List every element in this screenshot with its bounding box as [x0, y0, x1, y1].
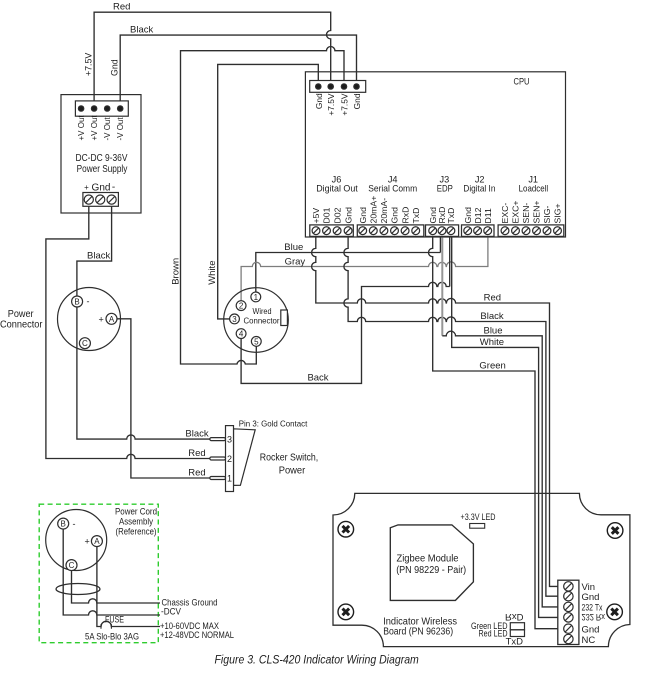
svg-text:Digital Out: Digital Out — [316, 183, 358, 193]
svg-text:1: 1 — [227, 473, 232, 483]
wire psu black to power connector B — [77, 204, 112, 302]
svg-text:SIG+: SIG+ — [553, 203, 563, 223]
svg-text:Zigbee Module: Zigbee Module — [397, 554, 460, 565]
CPU box — [305, 72, 565, 237]
wire green (J3 Gnd to board Gnd) — [429, 238, 558, 629]
CPU top 4-pin connector — [310, 81, 366, 93]
wire rxd dark stub — [439, 238, 441, 253]
svg-text:2: 2 — [239, 302, 244, 311]
svg-text:Connector: Connector — [0, 320, 43, 331]
green LED rect — [510, 623, 524, 630]
svg-text:2: 2 — [227, 454, 232, 464]
wire back (wired connector pin4 to J3 TxD) — [241, 282, 450, 383]
J6 terminal strip — [310, 225, 354, 237]
svg-text:TxD: TxD — [446, 208, 456, 224]
svg-text:RxD: RxD — [400, 207, 410, 224]
power supply screw terminal — [83, 193, 119, 207]
rocker switch — [210, 426, 255, 492]
J2 terminal strip — [462, 225, 495, 237]
svg-text:+: + — [84, 183, 89, 192]
svg-text:Red: Red — [484, 293, 501, 304]
svg-text:D01: D01 — [322, 207, 332, 223]
power cord wire C to chassis ground — [72, 571, 161, 603]
svg-text:NC: NC — [582, 635, 596, 646]
svg-text:A: A — [109, 315, 115, 324]
wireless board outline — [333, 493, 630, 646]
svg-text:+7.5V: +7.5V — [84, 53, 94, 76]
wire red (J6 +5V to board Vin) — [312, 238, 558, 587]
svg-text:Gnd: Gnd — [343, 207, 353, 224]
svg-text:5: 5 — [254, 337, 259, 346]
svg-text:Red: Red — [188, 468, 205, 479]
wire power connector A to rocker pin1 — [117, 319, 210, 478]
svg-text:(Reference): (Reference) — [116, 527, 157, 537]
svg-text:Loadcell: Loadcell — [519, 183, 549, 193]
svg-text:C: C — [69, 561, 75, 570]
svg-text:+: + — [85, 537, 90, 547]
board corner screw TR — [607, 523, 623, 539]
wire white2 (J3 TxD to board 232Rx) — [452, 238, 558, 618]
svg-text:+7.5V: +7.5V — [326, 93, 336, 116]
wire white (CPU Gnd to wired connector pin3) — [218, 64, 319, 319]
svg-text:Power: Power — [279, 466, 306, 477]
svg-text:+5V: +5V — [311, 208, 321, 224]
svg-text:+V Out: +V Out — [77, 115, 86, 141]
power supply box — [61, 95, 141, 213]
svg-text:Gnd: Gnd — [314, 93, 324, 109]
svg-text:Assembly: Assembly — [119, 517, 153, 527]
svg-text:B: B — [74, 298, 79, 307]
J4 terminal strip — [357, 225, 424, 237]
svg-text:+3.3V LED: +3.3V LED — [461, 512, 496, 522]
svg-text:Power: Power — [8, 309, 34, 320]
svg-text:+: + — [99, 314, 104, 324]
wire gray vertical from J3 RxD — [441, 238, 443, 336]
svg-text:4: 4 — [239, 330, 244, 339]
svg-text:Digital In: Digital In — [463, 183, 495, 193]
svg-text:20mA+: 20mA+ — [369, 196, 379, 224]
svg-text:D02: D02 — [332, 207, 342, 223]
wire txd vertical (to Back) — [449, 238, 451, 287]
svg-text:(PN 98229 - Pair): (PN 98229 - Pair) — [396, 565, 466, 576]
svg-text:Power Supply: Power Supply — [77, 164, 128, 175]
+3.3V LED rect — [470, 524, 485, 529]
svg-text:20mA-: 20mA- — [379, 198, 389, 224]
svg-text:Pin 3: Gold Contact: Pin 3: Gold Contact — [239, 419, 308, 429]
svg-text:TxD: TxD — [411, 208, 421, 224]
svg-text:SEN-: SEN- — [521, 203, 531, 224]
red LED rect — [510, 630, 524, 637]
svg-text:Rocker Switch,: Rocker Switch, — [260, 453, 319, 464]
power cord wire A through fuse — [97, 547, 160, 627]
svg-text:EXC+: EXC+ — [511, 201, 521, 224]
svg-text:FUSE: FUSE — [105, 614, 124, 624]
svg-text:Figure 3. CLS-420 Indicator Wi: Figure 3. CLS-420 Indicator Wiring Diagr… — [215, 653, 419, 667]
svg-text:3: 3 — [232, 315, 237, 324]
svg-text:TxD: TxD — [506, 636, 524, 647]
svg-text:+7.5V: +7.5V — [340, 93, 350, 116]
svg-text:C: C — [82, 339, 88, 348]
svg-text:Brown: Brown — [171, 258, 182, 285]
svg-text:Black: Black — [185, 429, 208, 440]
power connector circle — [58, 288, 121, 351]
svg-text:Gnd: Gnd — [582, 592, 600, 603]
svg-text:Connector: Connector — [244, 316, 280, 326]
svg-text:A: A — [94, 537, 100, 546]
svg-text:Gnd: Gnd — [358, 207, 368, 224]
svg-text:-: - — [87, 297, 90, 307]
svg-text:Red: Red — [113, 2, 130, 13]
wire psu + screw to rocker pin2 — [46, 204, 210, 459]
svg-text:D11: D11 — [483, 208, 493, 223]
board corner screw BL — [338, 604, 354, 620]
wire blue2 (J3 RxD to board 232Tx) — [442, 331, 558, 607]
svg-text:Black: Black — [480, 311, 503, 322]
svg-text:D12: D12 — [473, 207, 483, 223]
power cord pins — [58, 518, 103, 571]
svg-text:CPU: CPU — [514, 77, 530, 88]
svg-text:Red LED: Red LED — [479, 628, 508, 638]
svg-text:SIG-: SIG- — [542, 206, 552, 224]
svg-text:-: - — [73, 519, 76, 529]
svg-text:+V Out: +V Out — [90, 115, 99, 141]
svg-text:Blue: Blue — [483, 325, 502, 336]
power cord assembly dashed box — [39, 504, 158, 643]
board terminal block — [558, 580, 579, 644]
svg-text:Black: Black — [130, 25, 153, 36]
J1 terminal strip — [498, 225, 564, 237]
svg-text:White: White — [480, 337, 504, 348]
svg-text:-: - — [112, 182, 115, 193]
zigbee module — [390, 525, 473, 601]
wired connector circle — [224, 288, 289, 353]
svg-text:1: 1 — [254, 293, 259, 302]
wire gray (wired connector pin2 to J2 D11) — [241, 238, 488, 301]
svg-text:Green: Green — [479, 361, 505, 372]
svg-text:-V Out: -V Out — [103, 117, 112, 141]
svg-text:5A Slo-Blo 3AG: 5A Slo-Blo 3AG — [85, 632, 139, 643]
wire black2 (J6 Gnd to board Gnd) — [344, 238, 558, 597]
wire power connector B to rocker pin3 — [77, 302, 210, 440]
svg-text:SEN+: SEN+ — [532, 201, 542, 224]
wire brown (CPU +7.5V to wired connector pin5) — [181, 47, 345, 365]
svg-text:RxD: RxD — [505, 611, 524, 622]
svg-text:EXC-: EXC- — [500, 203, 510, 224]
wire blue (wired connector pin1 to J3 RxD) — [256, 253, 441, 293]
fuse end ticks — [101, 624, 111, 629]
svg-text:-V Out: -V Out — [116, 117, 125, 141]
svg-text:3: 3 — [227, 434, 232, 444]
svg-text:White: White — [207, 261, 218, 285]
svg-text:DC-DC 9-36V: DC-DC 9-36V — [76, 153, 128, 164]
svg-text:+12-48VDC NORMAL: +12-48VDC NORMAL — [160, 630, 234, 641]
wire red top (PSU +V to CPU +7.5V) — [94, 12, 331, 104]
svg-text:Back: Back — [307, 373, 328, 384]
svg-text:Red: Red — [188, 448, 205, 459]
svg-text:Gnd: Gnd — [463, 207, 473, 224]
svg-text:Serial Comm: Serial Comm — [368, 183, 417, 193]
svg-text:Blue: Blue — [284, 242, 303, 253]
cable bundle ellipse — [56, 584, 100, 595]
svg-text:Gnd: Gnd — [390, 207, 400, 224]
J3 terminal strip — [426, 225, 459, 237]
power supply 4-pin connector — [75, 101, 128, 116]
svg-text:Board (PN 96236): Board (PN 96236) — [383, 627, 453, 638]
power cord circle — [46, 510, 107, 571]
wire black top (PSU -V to CPU Gnd) — [120, 35, 356, 104]
svg-text:232 Rx: 232 Rx — [582, 611, 606, 622]
svg-text:Gnd: Gnd — [352, 93, 362, 109]
svg-text:Gray: Gray — [285, 257, 306, 268]
svg-text:EDP: EDP — [437, 183, 453, 193]
svg-text:Wired: Wired — [253, 306, 272, 316]
svg-text:Black: Black — [87, 251, 110, 262]
svg-text:Power Cord: Power Cord — [115, 507, 157, 517]
svg-text:-DCV: -DCV — [161, 607, 182, 618]
power cord wire B to -DCV — [63, 529, 160, 615]
svg-text:B: B — [61, 520, 66, 529]
board corner screw BR — [607, 604, 623, 620]
svg-text:Gnd: Gnd — [582, 625, 600, 636]
svg-text:Gnd: Gnd — [92, 183, 111, 194]
board corner screw TL — [338, 521, 354, 537]
svg-text:Gnd: Gnd — [110, 59, 120, 76]
